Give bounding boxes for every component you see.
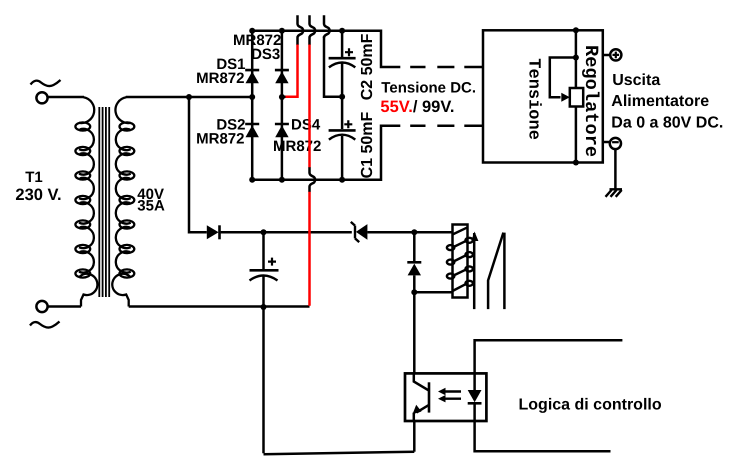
svg-text:Tensione DC.: Tensione DC. [381,80,476,97]
svg-text:55V./ 99V.: 55V./ 99V. [380,98,454,116]
svg-text:35A: 35A [137,197,165,214]
svg-text:MR872: MR872 [196,70,244,87]
svg-text:DS3: DS3 [251,46,280,63]
svg-text:Da 0 a 80V DC.: Da 0 a 80V DC. [611,114,723,131]
svg-text:DS4: DS4 [291,117,321,134]
svg-text:C2 50mF: C2 50mF [359,33,376,100]
svg-text:230 V.: 230 V. [15,186,61,204]
svg-text:MR872: MR872 [273,138,321,155]
svg-text:Uscita: Uscita [612,72,660,89]
svg-text:Alimentatore: Alimentatore [611,93,709,110]
svg-text:Logica di controllo: Logica di controllo [519,396,662,413]
svg-text:Regolatore: Regolatore [580,45,602,157]
svg-text:C1 50mF: C1 50mF [359,111,376,178]
svg-text:T1: T1 [25,169,43,186]
svg-text:Tensione: Tensione [524,58,543,140]
svg-text:MR872: MR872 [196,130,244,147]
